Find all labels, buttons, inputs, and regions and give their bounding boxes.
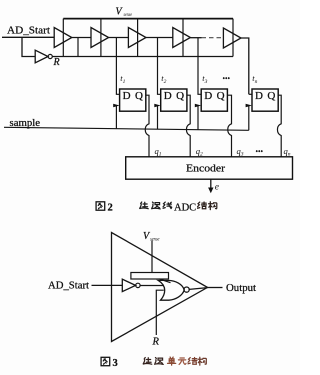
- svg-text:R: R: [152, 337, 160, 348]
- D flip-flop FF3: [195, 89, 228, 111]
- wire buffer3 output: [146, 37, 173, 39]
- net Vsense label: [116, 7, 133, 19]
- svg-text:D: D: [164, 90, 172, 102]
- wire Output: [208, 287, 223, 289]
- svg-text:R: R: [53, 57, 60, 68]
- svg-text:Output: Output: [226, 283, 256, 294]
- svg-text:D: D: [255, 90, 263, 102]
- inverter U2: [122, 279, 140, 291]
- caption figure 2: [96, 202, 217, 214]
- svg-text:...: ...: [256, 144, 264, 155]
- svg-text:t2: t2: [161, 73, 166, 85]
- delay buffer 2: [91, 28, 109, 48]
- wire FFn Q output qn: [277, 95, 281, 157]
- delay buffer 3: [128, 28, 146, 48]
- NOR gate U3: [158, 280, 189, 300]
- delay cell triangle: [112, 233, 208, 342]
- svg-text:Q: Q: [135, 90, 143, 102]
- svg-text:Q: Q: [176, 90, 184, 102]
- svg-text:ADC: ADC: [174, 202, 196, 213]
- wire branch down to inverter: [22, 37, 35, 56]
- wire inverter to NOR: [140, 285, 164, 287]
- svg-text:sense: sense: [124, 13, 133, 18]
- wire tap t2: [158, 38, 161, 95]
- D flip-flop FF1: [113, 89, 146, 111]
- wire FFn clock to sample: [248, 106, 250, 130]
- inverter U0: [35, 50, 52, 63]
- D flip-flop FF2: [154, 89, 187, 111]
- svg-text:q1: q1: [155, 146, 162, 158]
- D flip-flop FFn: [246, 89, 279, 111]
- net Vsense label fig3: [143, 231, 160, 243]
- wire AD_Start input: [2, 36, 54, 38]
- svg-text:Encoder: Encoder: [186, 162, 225, 174]
- delay buffer 4: [173, 28, 191, 48]
- current-starve box: [131, 273, 171, 283]
- output e arrow: [208, 179, 219, 193]
- wire FF1 Q output q1: [145, 95, 149, 157]
- wire AD_Start fig3: [92, 284, 123, 286]
- svg-text:q3: q3: [237, 146, 244, 158]
- wire NOR output: [189, 288, 207, 290]
- svg-text:...: ...: [223, 71, 231, 82]
- caption figure 3: [101, 357, 206, 369]
- wire FF3 Q output q3: [227, 95, 231, 157]
- svg-text:V: V: [116, 7, 124, 18]
- wire buffer2 output: [109, 37, 129, 39]
- wire tap t3: [198, 38, 201, 95]
- wire FF3 clock to sample: [197, 106, 199, 130]
- svg-text:q2: q2: [196, 146, 203, 158]
- svg-text:AD_Start: AD_Start: [48, 281, 89, 292]
- wire buffer1 output: [72, 37, 91, 39]
- svg-text:t3: t3: [202, 73, 207, 85]
- svg-text:tn: tn: [252, 73, 257, 85]
- wire continuation dashed: [202, 37, 223, 39]
- wire cell vertical 1: [62, 19, 64, 57]
- svg-text:Q: Q: [267, 90, 275, 102]
- svg-text:e: e: [215, 183, 219, 193]
- wire buffer n output: [241, 38, 249, 94]
- svg-text:AD_Start: AD_Start: [7, 25, 50, 37]
- encoder block: [126, 157, 293, 179]
- svg-text:Q: Q: [217, 90, 225, 102]
- svg-text:D: D: [123, 90, 131, 102]
- wire stub to R rail: [77, 38, 79, 57]
- wire FF2 clock to sample: [157, 106, 159, 129]
- wire FF1 clock to sample: [115, 106, 117, 129]
- wire FF2 Q output q2: [186, 95, 190, 157]
- wire sample line: [4, 127, 249, 130]
- wire tap tn jog: [249, 93, 252, 95]
- wire Vsense top rail: [63, 18, 233, 20]
- wire cell vertical 2: [100, 19, 102, 57]
- svg-text:qn: qn: [284, 146, 291, 158]
- delay buffer n: [223, 28, 241, 48]
- svg-text:3: 3: [113, 358, 118, 369]
- wire cell vertical 5: [232, 19, 234, 57]
- wire cell vertical 3: [137, 19, 139, 57]
- wire tap t1: [116, 38, 119, 95]
- wire R input fig3: [156, 290, 164, 335]
- wire R bottom rail: [52, 56, 233, 58]
- delay buffer 1: [54, 28, 72, 48]
- svg-text:2: 2: [108, 202, 113, 213]
- svg-text:D: D: [204, 90, 212, 102]
- svg-text:t1: t1: [120, 73, 125, 85]
- wire Vsense drop: [151, 241, 153, 273]
- wire buffer4 output: [190, 37, 201, 39]
- wire cell vertical 4: [182, 19, 184, 57]
